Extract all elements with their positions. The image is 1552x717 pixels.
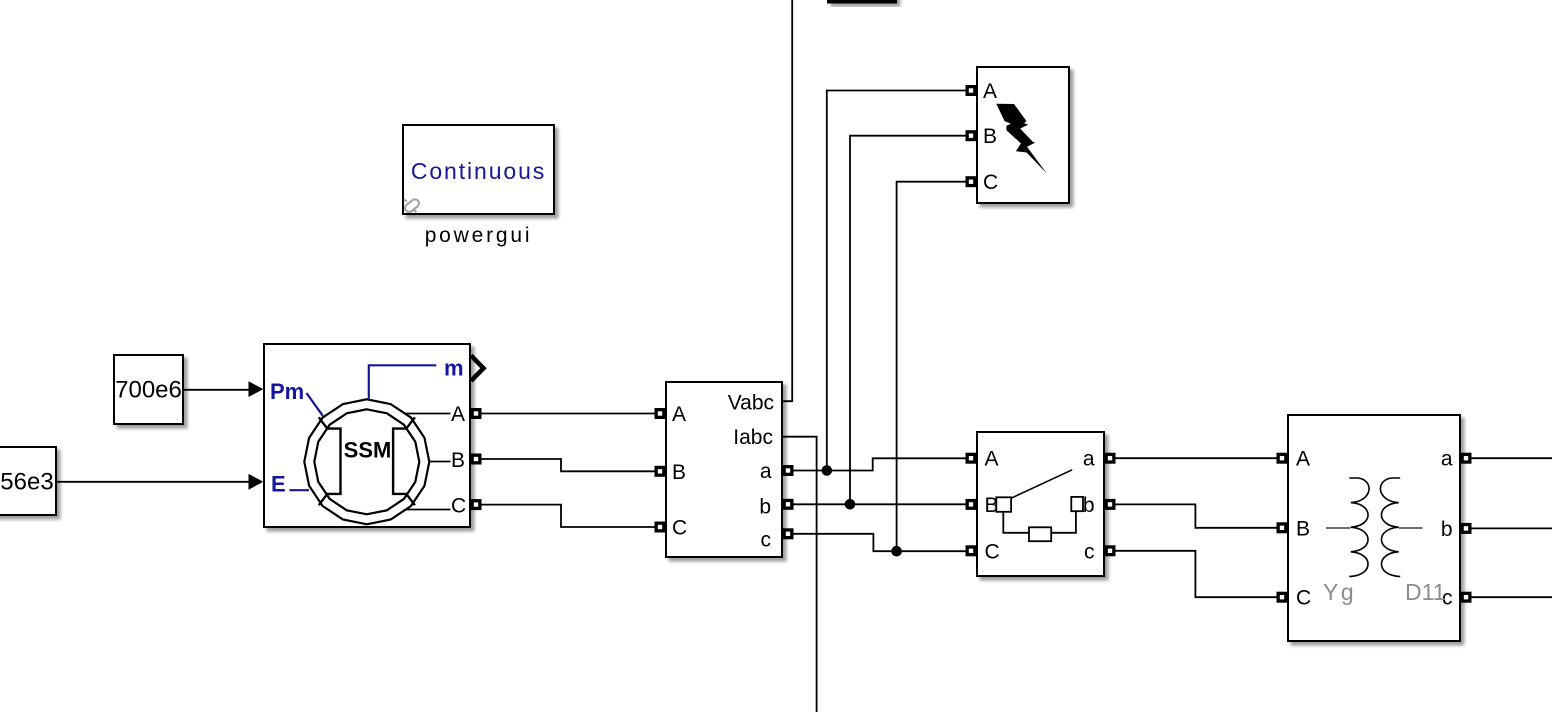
SSM Pm lead line	[307, 393, 323, 416]
wire breaker c to transformer C	[1116, 551, 1277, 597]
SSM port B	[471, 454, 482, 465]
svg-text:b: b	[1083, 494, 1095, 517]
SSM right bracket	[393, 417, 415, 505]
transformer secondary winding	[1380, 478, 1400, 576]
junction on phase c	[891, 546, 902, 557]
transformer primary mid lead	[1326, 527, 1351, 529]
constant block 700e6	[114, 355, 183, 424]
transformer C label	[1296, 587, 1311, 610]
measurement Vabc label	[728, 392, 774, 415]
SSM m output chevron	[471, 356, 484, 381]
SSM E label	[271, 472, 286, 497]
svg-text:B: B	[1296, 517, 1310, 540]
svg-text:b: b	[1441, 518, 1453, 541]
svg-text:C: C	[1296, 587, 1311, 610]
breaker coil box	[1029, 527, 1051, 541]
wire measurement c to breaker C	[794, 534, 966, 551]
svg-text:D11: D11	[1405, 579, 1446, 605]
three-phase fault block	[977, 67, 1069, 203]
transformer c label	[1442, 587, 1453, 610]
transformer B label	[1296, 517, 1310, 540]
SSM m lead line	[369, 365, 437, 398]
SSM B label	[451, 449, 465, 472]
powergui Continuous label	[411, 158, 546, 184]
wire phase c to fault C	[897, 182, 966, 552]
measurement port A	[655, 408, 666, 419]
breaker b label	[1083, 494, 1095, 517]
svg-text:C: C	[985, 540, 1000, 563]
breaker switch right contact	[1071, 497, 1083, 511]
powergui name label	[425, 224, 533, 247]
breaker C label	[985, 540, 1000, 563]
transformer a label	[1441, 448, 1453, 471]
transformer port c	[1461, 592, 1472, 603]
fault lightning bolt icon	[996, 104, 1047, 174]
svg-text:Continuous: Continuous	[411, 158, 546, 184]
svg-text:a: a	[1441, 448, 1453, 471]
svg-text:a: a	[760, 460, 772, 483]
svg-text:A: A	[983, 80, 997, 103]
SSM port C	[471, 499, 482, 510]
three-phase transformer block Yg-D11	[1288, 415, 1460, 641]
measurement c label	[761, 529, 772, 552]
svg-text:m: m	[444, 356, 464, 381]
breaker A label	[985, 448, 999, 471]
wire transformer c out	[1472, 596, 1552, 598]
breaker port B	[966, 499, 977, 510]
powergui broken-link icon	[403, 198, 420, 214]
breaker coil linkage	[1003, 511, 1076, 533]
SSM m label	[444, 356, 464, 381]
measurement B label	[672, 461, 686, 484]
measurement port b	[783, 499, 794, 510]
breaker switch arm	[1011, 470, 1072, 498]
scope block (cut off at top edge)	[827, 0, 897, 4]
wire 700e6 to Pm	[183, 381, 263, 397]
svg-text:B: B	[672, 461, 686, 484]
SSM E lead line	[290, 489, 310, 491]
svg-text:Pm: Pm	[270, 379, 304, 404]
fault port B	[966, 130, 977, 141]
breaker B label	[985, 494, 999, 517]
transformer port B	[1277, 522, 1288, 533]
wire SSM A to measurement A	[482, 413, 655, 415]
svg-text:C: C	[672, 517, 687, 540]
wire breaker b to transformer B	[1116, 504, 1277, 527]
transformer port C	[1277, 592, 1288, 603]
breaker port a	[1105, 453, 1116, 464]
measurement a label	[760, 460, 772, 483]
svg-text:A: A	[985, 448, 999, 471]
transformer b label	[1441, 518, 1453, 541]
SSM text	[344, 438, 392, 463]
measurement Iabc label	[733, 426, 773, 449]
SSM A stub	[406, 413, 451, 415]
SSM left bracket	[319, 417, 341, 505]
svg-text:A: A	[672, 403, 686, 426]
transformer A label	[1296, 448, 1310, 471]
svg-text:SSM: SSM	[344, 438, 392, 463]
svg-text:Yg: Yg	[1323, 579, 1356, 605]
transformer port a	[1461, 453, 1472, 464]
wire SSM C to measurement C	[482, 505, 655, 527]
SSM Pm label	[270, 379, 304, 404]
fault B label	[983, 125, 997, 148]
transformer port b	[1461, 523, 1472, 534]
breaker port C	[966, 545, 977, 556]
svg-text:C: C	[451, 495, 466, 518]
transformer primary winding	[1349, 478, 1369, 576]
wire measurement b to breaker B	[794, 503, 966, 505]
breaker port A	[966, 453, 977, 464]
svg-text:Iabc: Iabc	[733, 426, 773, 449]
fault port C	[966, 176, 977, 187]
breaker port b	[1105, 499, 1116, 510]
fault C label	[983, 171, 998, 194]
svg-text:powergui: powergui	[425, 224, 533, 247]
measurement A label	[672, 403, 686, 426]
svg-text:56e3: 56e3	[0, 469, 53, 496]
breaker switch left contact	[996, 497, 1011, 512]
wire 56e3 to E	[56, 474, 263, 490]
SSM C label	[451, 495, 466, 518]
SSM machine outer circle	[304, 399, 429, 524]
transformer D11 label	[1405, 579, 1446, 605]
measurement port c	[783, 528, 794, 539]
junction on phase b	[845, 499, 856, 510]
measurement port C	[655, 522, 666, 533]
wire Vabc to scope (up off-screen)	[782, 0, 792, 401]
breaker a label	[1083, 448, 1095, 471]
svg-text:C: C	[983, 171, 998, 194]
constant block 56e3 (cut off at left edge)	[0, 447, 56, 515]
wire transformer b out	[1472, 527, 1552, 529]
wire breaker a to transformer A	[1116, 457, 1277, 459]
wire phase b to fault B	[850, 136, 966, 505]
svg-text:c: c	[1084, 540, 1095, 563]
wire phase a to fault A	[827, 91, 966, 471]
wire measurement a to breaker A	[794, 458, 966, 470]
transformer secondary mid lead	[1399, 527, 1423, 529]
breaker port c	[1105, 545, 1116, 556]
measurement C label	[672, 517, 687, 540]
SSM port A	[471, 408, 482, 419]
breaker c label	[1084, 540, 1095, 563]
wire SSM B to measurement B	[482, 459, 655, 471]
measurement port a	[783, 465, 794, 476]
SSM machine inner circle	[314, 409, 419, 514]
svg-text:B: B	[983, 125, 997, 148]
SSM B stub	[429, 461, 450, 463]
measurement b label	[759, 496, 771, 519]
three-phase VI measurement block	[666, 382, 782, 557]
SSM A label	[451, 403, 465, 426]
synchronous machine block SSM	[264, 344, 470, 527]
fault A label	[983, 80, 997, 103]
fault port A	[966, 85, 977, 96]
svg-text:700e6: 700e6	[115, 377, 182, 404]
svg-text:B: B	[451, 449, 465, 472]
wire Iabc down off-screen	[782, 437, 817, 712]
wire transformer a out	[1472, 457, 1552, 459]
svg-text:c: c	[761, 529, 772, 552]
transformer Yg label	[1323, 579, 1356, 605]
junction on phase a	[822, 465, 833, 476]
SSM C stub	[406, 509, 451, 511]
svg-text:Vabc: Vabc	[728, 392, 774, 415]
svg-text:E: E	[271, 472, 286, 497]
transformer port A	[1277, 453, 1288, 464]
svg-text:a: a	[1083, 448, 1095, 471]
powergui block	[403, 125, 554, 214]
svg-text:b: b	[759, 496, 771, 519]
svg-text:A: A	[1296, 448, 1310, 471]
three-phase breaker block	[977, 432, 1104, 576]
measurement port B	[655, 466, 666, 477]
svg-text:A: A	[451, 403, 465, 426]
